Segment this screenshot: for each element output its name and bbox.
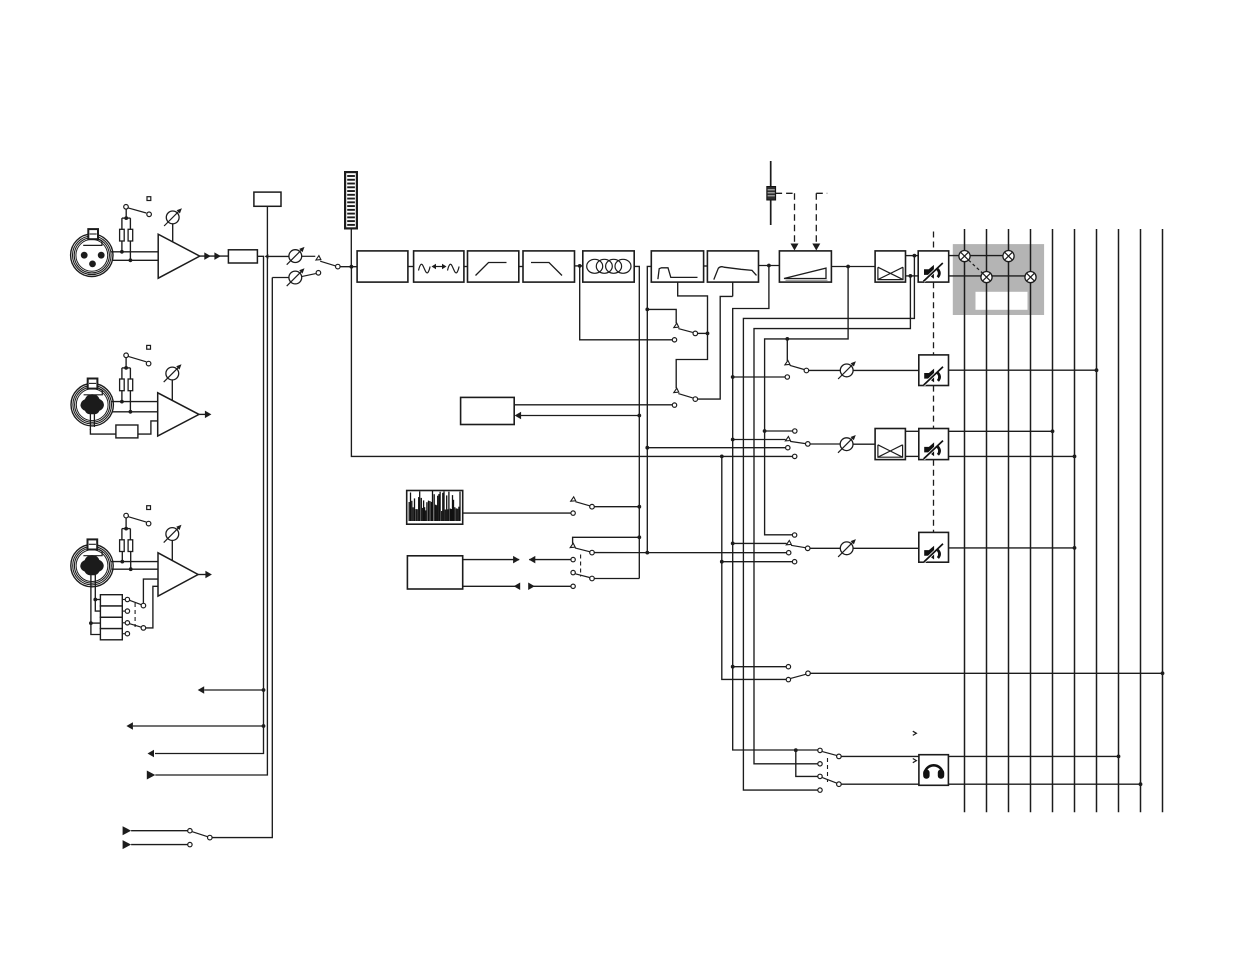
wire bus 7 bbox=[1096, 229, 1098, 812]
wire phones feed junction bbox=[794, 748, 798, 752]
block B6 gate bbox=[651, 251, 703, 282]
potentiometer aux3 bbox=[810, 547, 840, 549]
wire dashed fader control 1 bbox=[776, 192, 795, 194]
connector J2 combo input ch2 bbox=[71, 384, 113, 426]
potentiometer aux1 bbox=[809, 369, 841, 371]
block A/D ch1 bbox=[228, 250, 257, 263]
wire noise out bbox=[463, 512, 571, 514]
wire aux2 to bus5 bbox=[949, 430, 1053, 432]
node return/pot junction arrow bbox=[265, 254, 269, 259]
wire aux1 pre feed bbox=[731, 375, 735, 379]
block pad ch2 bbox=[90, 429, 116, 434]
wire FX out bbox=[514, 404, 672, 406]
block B1 input select bbox=[357, 251, 408, 282]
glyph chevron marks bbox=[913, 731, 917, 735]
wire usb switch gang dashed bbox=[580, 555, 582, 577]
wire aux out 3 bbox=[148, 750, 155, 758]
wire noise sw pole to V1 bbox=[594, 506, 639, 508]
wire ch3 out bbox=[198, 574, 206, 576]
block pad attenuator stack ch3 bbox=[100, 595, 122, 606]
wire phones to bus8 bbox=[948, 755, 1118, 757]
wire pre-processing tap long bbox=[351, 267, 792, 457]
switch USB select pole2 bbox=[571, 570, 575, 574]
wire pan out L bbox=[906, 255, 919, 257]
wire aux2 to bus6 bbox=[949, 455, 1075, 457]
wire bus 5 bbox=[1052, 229, 1054, 812]
wire pre tap down right column bbox=[722, 456, 786, 679]
switch aux3 source bbox=[792, 533, 796, 537]
switch SW2 phantom ch2 bbox=[124, 353, 129, 358]
wire aux1 to bus7 bbox=[949, 369, 1097, 371]
wire pan tap R bbox=[754, 276, 910, 764]
wire ch3 cold bbox=[112, 568, 158, 570]
block pan aux2 bbox=[875, 429, 905, 460]
wire pan out R bbox=[906, 275, 919, 277]
switch S2 comp key bbox=[674, 388, 679, 392]
op-amp U2 preamp ch2 bbox=[158, 393, 199, 436]
switch pad select ch3 bbox=[122, 599, 125, 601]
wire B6 in from V2 bbox=[647, 266, 651, 552]
resistor R3 bbox=[120, 379, 125, 391]
wire rec to bus10 bbox=[810, 672, 1162, 674]
wire return in 4 bbox=[147, 771, 156, 780]
wire V2 to aux2 c3 bbox=[645, 446, 649, 450]
node assign 3 bbox=[1003, 251, 1014, 262]
wire box7 bottom stub bbox=[732, 282, 734, 296]
wire usb pole1 to V2 and aux3 bbox=[594, 552, 786, 554]
wire resistor top bar bbox=[122, 217, 130, 219]
resistor R4 bbox=[128, 379, 133, 391]
block phones amp bbox=[919, 755, 949, 786]
node assign 1 bbox=[959, 251, 970, 262]
wire pan tap L bbox=[743, 256, 914, 791]
wire mute out R bbox=[949, 275, 1031, 277]
wire aux3 pre feed bbox=[731, 542, 735, 546]
switch noise inject bbox=[571, 497, 576, 501]
wire bus 4 bbox=[1030, 229, 1032, 812]
block pan bbox=[875, 251, 905, 282]
wire fader stem bbox=[350, 228, 352, 266]
switch aux1 source bbox=[785, 360, 790, 364]
wire bus 8 bbox=[1118, 229, 1120, 812]
node ch1 R junctions bbox=[120, 250, 124, 254]
wire aux out 2 bbox=[262, 724, 266, 728]
resistor R2 bbox=[128, 229, 133, 241]
wire bus 9 bbox=[1140, 229, 1142, 812]
wire ch2 jack stem bbox=[89, 414, 91, 430]
wire B5 out down (V1) bbox=[634, 266, 639, 578]
op-amp U3 preamp ch3 bbox=[158, 553, 198, 596]
wire b2-b3 bbox=[464, 266, 468, 268]
node assign 4 bbox=[1025, 272, 1036, 283]
block return input box bbox=[254, 192, 281, 206]
wire fader-pan bbox=[831, 266, 875, 268]
wire ch1 preamp out bbox=[200, 255, 229, 257]
wire aux2 pan-mute bbox=[905, 430, 918, 432]
block noise generator bbox=[407, 491, 463, 525]
wire ch1 hot bbox=[111, 251, 159, 253]
block B5 EQ bbox=[583, 251, 634, 282]
block mute aux2 bbox=[919, 429, 949, 460]
switch ext input select bbox=[123, 826, 132, 835]
switch aux2 source bbox=[793, 429, 797, 433]
potentiometer gain ch2 bbox=[166, 367, 179, 380]
wire aux out 1 bbox=[262, 688, 266, 692]
block B2 delay bbox=[414, 251, 464, 282]
block mute aux1 bbox=[919, 355, 949, 386]
potentiometer source A bbox=[289, 250, 302, 263]
wire gate key bracket bbox=[645, 308, 649, 312]
wire b7 to fader box bbox=[759, 265, 780, 267]
node assign 2 bbox=[981, 272, 992, 283]
wire b6-b7 bbox=[704, 265, 708, 267]
resistor R5 bbox=[120, 540, 125, 552]
switch rec source bbox=[786, 665, 790, 669]
switch S1 gate key bbox=[674, 323, 679, 327]
wire b3-b4 bbox=[519, 266, 523, 268]
wire b1-b2 bbox=[408, 266, 414, 268]
wire dashed mute group bbox=[933, 232, 935, 251]
wire ch2 cold bbox=[112, 411, 158, 413]
block B4 LPF bbox=[523, 251, 575, 282]
fader ladder channel bbox=[345, 172, 357, 228]
wire pre-fader tap bbox=[733, 266, 818, 751]
wire bus 3 bbox=[1008, 229, 1010, 812]
connector J3 combo input ch3 bbox=[71, 544, 113, 586]
wire return feed vertical bbox=[155, 206, 267, 775]
op-amp U1 preamp ch1 bbox=[158, 234, 200, 278]
master assign panel bbox=[953, 244, 1044, 315]
wire phones to bus9 bbox=[948, 783, 1140, 785]
block mute aux3 bbox=[919, 532, 949, 562]
wire dashed stereo link bbox=[969, 260, 983, 273]
potentiometer gain ch1 bbox=[166, 211, 179, 224]
wire ch3 hot bbox=[111, 561, 158, 563]
switch SW1 phantom ch1 bbox=[124, 205, 129, 210]
block USB I/O bbox=[407, 556, 462, 589]
resistor R1 bbox=[120, 229, 125, 241]
wire bus 6 bbox=[1074, 229, 1076, 812]
resistor R6 bbox=[128, 540, 133, 552]
block B7 comp bbox=[707, 251, 758, 282]
block fader bbox=[779, 251, 831, 282]
wire aux3 to bus6 bbox=[949, 547, 1075, 549]
block B3 HPF bbox=[468, 251, 519, 282]
switch SW3 phantom ch3 bbox=[124, 513, 129, 518]
potentiometer aux2 bbox=[810, 443, 840, 445]
wire to source pot A bbox=[267, 255, 289, 257]
wire bus 10 bbox=[1162, 229, 1164, 812]
wire aux2 pre feed bbox=[731, 438, 735, 442]
fader control slider bbox=[770, 161, 772, 225]
potentiometer gain ch3 bbox=[166, 528, 179, 541]
wire mute out L bbox=[949, 255, 1009, 257]
wire FX return bbox=[521, 415, 639, 417]
wire dashed fader control 2 bbox=[816, 192, 827, 194]
wire bus 1 bbox=[964, 229, 966, 812]
block mute channel bbox=[918, 251, 949, 282]
wire box6 bottom to S1/S2 bbox=[676, 282, 707, 388]
wire phones pole L bbox=[841, 755, 919, 757]
wire usb playback bbox=[463, 559, 520, 561]
wire ch1 adc out down bbox=[155, 256, 264, 753]
wire V1 bracket to usb switch bbox=[637, 535, 641, 539]
wire post-fader tap bbox=[765, 267, 849, 535]
switch phones source 2-gang bbox=[818, 748, 822, 752]
wire rec feed pre-fader bbox=[731, 665, 735, 669]
wire b4-b5 with pre-EQ tap bbox=[575, 265, 583, 267]
switch USB select pole1 bbox=[570, 543, 575, 547]
wire usb record bbox=[463, 585, 520, 587]
wire ch2 hot bbox=[111, 401, 158, 403]
block FX insert bbox=[461, 397, 515, 424]
wire usb pole2 to V1 bbox=[594, 578, 639, 580]
wire pre-EQ tap to gate key bbox=[580, 266, 673, 340]
wire pad feeds ch3 bbox=[91, 575, 101, 635]
wire bus 2 bbox=[986, 229, 988, 812]
wire ch2 out bbox=[199, 413, 205, 415]
wire ch1 cold bbox=[112, 259, 159, 261]
switch source select ch1 bbox=[316, 256, 321, 260]
connector J1 XLR mic input bbox=[71, 234, 113, 276]
wire phones pole R bbox=[841, 783, 919, 785]
wire ext to source pot B bbox=[212, 278, 272, 838]
wire S2 pole to box7 key bbox=[698, 296, 733, 399]
potentiometer source B bbox=[289, 271, 302, 284]
